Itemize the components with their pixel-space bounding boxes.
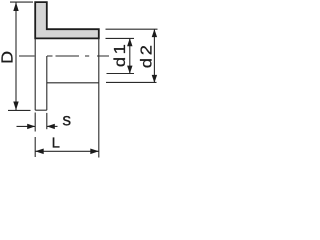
arrow d1 bottom	[127, 66, 132, 74]
svg-text:2: 2	[137, 45, 156, 55]
flange bottom edge	[35, 109, 47, 111]
dimension s extension left	[34, 113, 36, 132]
dimension d1 extension top (bore)	[106, 37, 135, 39]
arrow D top	[13, 2, 18, 11]
dimension D extension bottom	[8, 109, 31, 111]
sleeve right edge + L extension	[98, 38, 100, 157]
dimension d2 extension top (outer)	[106, 28, 158, 30]
svg-text:1: 1	[110, 44, 129, 54]
dimension L line	[35, 150, 99, 152]
flange right edge (lower view)	[46, 56, 48, 110]
centerline	[19, 55, 109, 57]
dimension d2 extension bottom	[106, 81, 157, 83]
dimension D extension top	[10, 1, 33, 3]
flange left edge (lower view)	[34, 38, 36, 110]
dimension L extension left	[34, 137, 36, 157]
svg-text:d: d	[137, 58, 156, 68]
arrow s right (points left)	[47, 124, 55, 129]
part section (gray L-shape, upper half)	[35, 2, 99, 38]
arrow L right (points right)	[90, 149, 99, 155]
svg-text:d: d	[110, 57, 129, 67]
svg-text:L: L	[52, 135, 60, 152]
dimension d1 line	[129, 38, 131, 73]
sleeve bottom edge (lower view)	[47, 82, 99, 84]
svg-text:s: s	[62, 110, 71, 130]
dimension d2 line	[153, 29, 155, 83]
arrow d2 top	[152, 29, 157, 37]
dimension d1 extension bottom	[107, 73, 135, 75]
dimension D line	[15, 3, 17, 111]
arrow L left (points left)	[35, 149, 44, 155]
arrow D bottom	[13, 102, 18, 111]
arrow s left (points right)	[27, 124, 35, 129]
svg-text:D: D	[0, 51, 16, 64]
arrow d1 top	[127, 38, 132, 46]
dimension s line right tail	[47, 125, 58, 127]
arrow d2 bottom	[152, 75, 157, 83]
dimension s extension right	[46, 113, 48, 129]
dimension s line left tail	[17, 125, 36, 127]
